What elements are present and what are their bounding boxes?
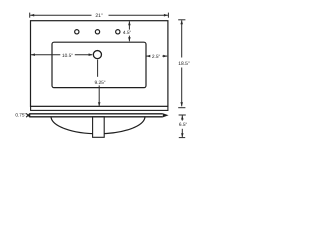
svg-text:6.5": 6.5" xyxy=(179,122,188,128)
vanity top plan outer rectangle xyxy=(31,21,168,107)
sink cutout inner rectangle xyxy=(52,42,146,87)
dimension 18.5" right side xyxy=(178,20,185,108)
drain circle xyxy=(93,51,101,59)
0.75" thickness marker xyxy=(26,113,30,117)
dimension 21" top xyxy=(30,13,169,18)
svg-text:18.5": 18.5" xyxy=(178,61,190,67)
svg-text:21": 21" xyxy=(95,13,103,19)
faucet hole center xyxy=(95,30,99,34)
dimension 4.5" faucet holes xyxy=(128,21,130,41)
svg-text:0.75": 0.75" xyxy=(15,113,26,118)
dimension 9.25" drain to front xyxy=(98,60,100,106)
faucet hole right xyxy=(116,30,120,34)
dimension 2.5" right clearance xyxy=(146,55,167,57)
dimension 10.5" to drain xyxy=(31,54,92,56)
basin rim bar xyxy=(30,114,163,117)
drain pipe xyxy=(93,117,105,138)
faucet hole left xyxy=(75,30,79,34)
front view slab xyxy=(31,106,168,110)
basin bowl curve xyxy=(51,116,145,133)
dimension 6.5" front height xyxy=(179,115,186,138)
svg-text:4.5": 4.5" xyxy=(123,30,132,36)
svg-text:2.5": 2.5" xyxy=(152,54,161,60)
svg-text:10.5": 10.5" xyxy=(62,53,73,59)
svg-text:9.25": 9.25" xyxy=(94,80,105,86)
